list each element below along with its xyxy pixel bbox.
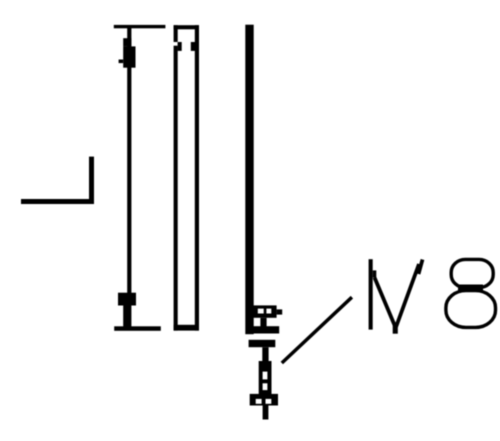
- bolt thread gap 2: [263, 383, 268, 390]
- wall bracket vertical: [89, 157, 94, 204]
- letter M right stroke: [419, 260, 423, 275]
- digit 8 top ring: [451, 259, 493, 287]
- post front view: right joint block: [191, 42, 195, 51]
- post side view thick line: [245, 25, 253, 335]
- post front view: left edge upper: [174, 25, 178, 42]
- wall bracket horizontal: [21, 199, 94, 204]
- wing nut notch 2: [266, 399, 272, 404]
- letter M diagonal down: [375, 278, 395, 326]
- post front view: right edge: [195, 25, 199, 330]
- dimension top arrowhead: [123, 38, 131, 46]
- dimension bottom tick bar: [114, 326, 161, 331]
- digit 8 bottom ring: [446, 291, 496, 328]
- clamp lower bar: [249, 340, 276, 347]
- leader line: [282, 297, 352, 363]
- letter M bump: [373, 270, 377, 277]
- dimension bottom arrowhead: [118, 293, 136, 306]
- clamp connector: [260, 318, 266, 327]
- clamp bracket hole 2: [266, 309, 271, 314]
- bolt threaded block: [259, 361, 272, 395]
- dimension vertical line: [127, 27, 131, 327]
- clamp bracket hole 1: [258, 309, 264, 314]
- clamp middle bar: [254, 326, 280, 333]
- clamp bracket plate: [254, 305, 277, 317]
- wing nut notch 1: [256, 399, 262, 404]
- letter M diagonal up: [396, 264, 419, 327]
- post front view: left edge lower: [174, 46, 178, 331]
- bolt thread gap 1: [263, 372, 268, 380]
- post front view: top edge: [174, 25, 199, 29]
- clamp bracket right lug: [277, 309, 283, 314]
- post front view: bottom edge: [174, 325, 199, 331]
- bolt wing nut: [250, 394, 278, 406]
- bolt upper stem: [262, 347, 268, 361]
- digit 8 waist: [458, 285, 483, 292]
- dimension top tick bar: [114, 25, 166, 28]
- post front view: left joint block: [178, 42, 182, 51]
- letter M left stroke: [369, 259, 373, 329]
- letter M vee foot: [393, 322, 398, 333]
- bolt bottom stem: [263, 406, 269, 420]
